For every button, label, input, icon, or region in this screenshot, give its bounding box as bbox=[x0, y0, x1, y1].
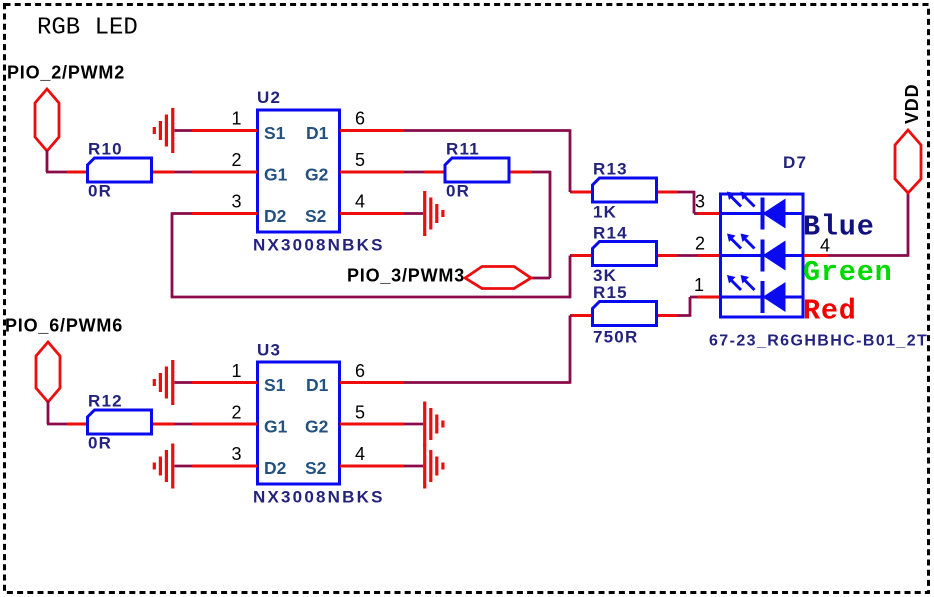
LED green channel row bbox=[721, 234, 804, 272]
svg-text:3: 3 bbox=[231, 444, 241, 464]
ground at U3 pin4 bbox=[425, 444, 443, 489]
LED package D7 body bbox=[721, 194, 804, 317]
wire up to R14 bbox=[570, 256, 572, 299]
transistor U3 body bbox=[258, 362, 340, 484]
svg-text:R10: R10 bbox=[88, 140, 123, 159]
ground at U2 pin1 bbox=[154, 108, 172, 153]
svg-text:G1: G1 bbox=[264, 165, 288, 185]
svg-text:D2: D2 bbox=[264, 458, 287, 478]
pin U3-3 bbox=[192, 465, 257, 468]
svg-text:U2: U2 bbox=[257, 88, 281, 107]
ground at U2 pin4 bbox=[425, 191, 443, 236]
port PIO_3/PWM3 symbol bbox=[465, 267, 531, 289]
svg-text:0R: 0R bbox=[88, 182, 112, 201]
svg-text:2: 2 bbox=[231, 150, 241, 170]
LED red channel row bbox=[721, 275, 804, 313]
wire U2 pin3 to node bbox=[172, 212, 192, 297]
wire U2 pin6 to R13 bbox=[404, 129, 572, 192]
svg-text:RGB LED: RGB LED bbox=[37, 15, 138, 42]
svg-text:1: 1 bbox=[231, 109, 241, 129]
svg-text:1: 1 bbox=[231, 361, 241, 381]
pin U3-2 bbox=[192, 423, 257, 426]
pin U2-2 bbox=[192, 171, 257, 174]
op U2 body bbox=[258, 110, 340, 232]
svg-text:4: 4 bbox=[355, 444, 365, 464]
svg-text:0R: 0R bbox=[88, 434, 112, 453]
svg-text:D1: D1 bbox=[306, 375, 329, 395]
pin U2-6 bbox=[340, 129, 404, 132]
pin U2-5 bbox=[340, 171, 404, 174]
svg-text:Red: Red bbox=[803, 295, 857, 328]
pin D7-1 bbox=[698, 296, 720, 299]
svg-text:4: 4 bbox=[355, 192, 365, 212]
wire R11 to PIO_3 port bbox=[531, 171, 550, 278]
resistor R12 bbox=[67, 410, 175, 434]
svg-text:S1: S1 bbox=[264, 123, 286, 143]
svg-text:67-23_R6GHBHC-B01_2T: 67-23_R6GHBHC-B01_2T bbox=[709, 333, 928, 350]
svg-text:R15: R15 bbox=[593, 283, 628, 302]
resistor R13 bbox=[572, 178, 678, 202]
svg-text:0R: 0R bbox=[446, 182, 470, 201]
wire U3 pin4 to ground bbox=[404, 465, 423, 468]
svg-text:NX3008NBKS: NX3008NBKS bbox=[253, 236, 385, 255]
pin U2-4 bbox=[340, 212, 404, 215]
wire R13 to D7 pin3 bbox=[678, 191, 699, 214]
ground at U3 pin3 bbox=[154, 444, 172, 489]
svg-text:2: 2 bbox=[695, 234, 705, 254]
svg-text:G2: G2 bbox=[305, 165, 329, 185]
svg-text:3: 3 bbox=[231, 192, 241, 212]
wire PIO_6 to R12 bbox=[47, 401, 67, 424]
svg-text:R14: R14 bbox=[593, 224, 628, 243]
svg-text:S1: S1 bbox=[264, 375, 286, 395]
wire bottom horizontal net bbox=[171, 296, 570, 299]
resistor R10 bbox=[67, 158, 175, 182]
pin U2-3 bbox=[192, 212, 257, 215]
svg-text:NX3008NBKS: NX3008NBKS bbox=[253, 488, 385, 507]
svg-text:R11: R11 bbox=[446, 140, 480, 159]
svg-text:PIO_2/PWM2: PIO_2/PWM2 bbox=[7, 63, 125, 83]
svg-text:R12: R12 bbox=[88, 392, 123, 411]
pin U2-1 bbox=[192, 129, 257, 132]
wire U3 pin5 to ground bbox=[404, 423, 423, 426]
wire R14 to D7 pin2 bbox=[678, 254, 703, 257]
svg-text:Green: Green bbox=[803, 256, 893, 289]
svg-text:5: 5 bbox=[355, 403, 365, 423]
pin U3-5 bbox=[340, 423, 404, 426]
resistor R15 bbox=[572, 302, 678, 326]
svg-text:R13: R13 bbox=[593, 160, 628, 179]
svg-text:D1: D1 bbox=[306, 123, 329, 143]
port PIO_2/PWM2 symbol bbox=[35, 89, 59, 151]
svg-text:PIO_3/PWM3: PIO_3/PWM3 bbox=[347, 266, 465, 286]
wire ground to U3 pin3 bbox=[175, 465, 193, 468]
svg-text:D2: D2 bbox=[264, 206, 287, 226]
ground at U3 pin1 bbox=[154, 360, 172, 405]
pin U3-4 bbox=[340, 465, 404, 468]
svg-text:PIO_6/PWM6: PIO_6/PWM6 bbox=[5, 316, 123, 336]
svg-text:S2: S2 bbox=[305, 458, 327, 478]
svg-text:S2: S2 bbox=[305, 206, 327, 226]
pin U3-1 bbox=[192, 381, 257, 384]
svg-text:750R: 750R bbox=[593, 328, 638, 347]
wire R12 to U3 pin2 bbox=[175, 423, 193, 426]
wire D7 pin4 to VDD bbox=[828, 193, 908, 257]
svg-text:G2: G2 bbox=[305, 417, 329, 437]
wire R10 to U2 pin2 bbox=[175, 171, 193, 174]
wire ground to U3 pin1 bbox=[175, 381, 193, 384]
svg-text:G1: G1 bbox=[264, 417, 288, 437]
svg-text:6: 6 bbox=[355, 109, 365, 129]
wire PIO_2 to R10 bbox=[46, 150, 67, 172]
svg-text:1K: 1K bbox=[593, 203, 617, 222]
wire U2 pin5 to R11 bbox=[404, 171, 424, 174]
svg-text:VDD: VDD bbox=[902, 84, 922, 124]
svg-text:Blue: Blue bbox=[803, 211, 875, 244]
wire ground to U2 pin1 bbox=[175, 129, 193, 132]
wire R15 to D7 pin1 bbox=[678, 297, 699, 317]
LED blue channel row bbox=[721, 192, 804, 230]
svg-text:U3: U3 bbox=[257, 341, 281, 360]
wire U3 pin6 to R15 bbox=[404, 316, 572, 384]
ground at U3 pin5 bbox=[425, 402, 443, 447]
svg-text:D7: D7 bbox=[783, 153, 807, 172]
wire U2 pin4 to ground bbox=[404, 212, 423, 215]
svg-text:1: 1 bbox=[694, 275, 704, 295]
svg-text:3: 3 bbox=[695, 192, 705, 212]
svg-text:6: 6 bbox=[355, 361, 365, 381]
pin D7-4 bbox=[804, 254, 828, 257]
pin U3-6 bbox=[340, 381, 404, 384]
pin D7-2 bbox=[698, 254, 720, 257]
resistor R11 bbox=[424, 158, 532, 182]
power port VDD symbol bbox=[895, 130, 921, 193]
svg-text:5: 5 bbox=[355, 150, 365, 170]
resistor R14 bbox=[572, 242, 678, 266]
svg-text:2: 2 bbox=[231, 403, 241, 423]
port PIO_6/PWM6 symbol bbox=[36, 342, 60, 402]
pin D7-3 bbox=[698, 212, 720, 215]
